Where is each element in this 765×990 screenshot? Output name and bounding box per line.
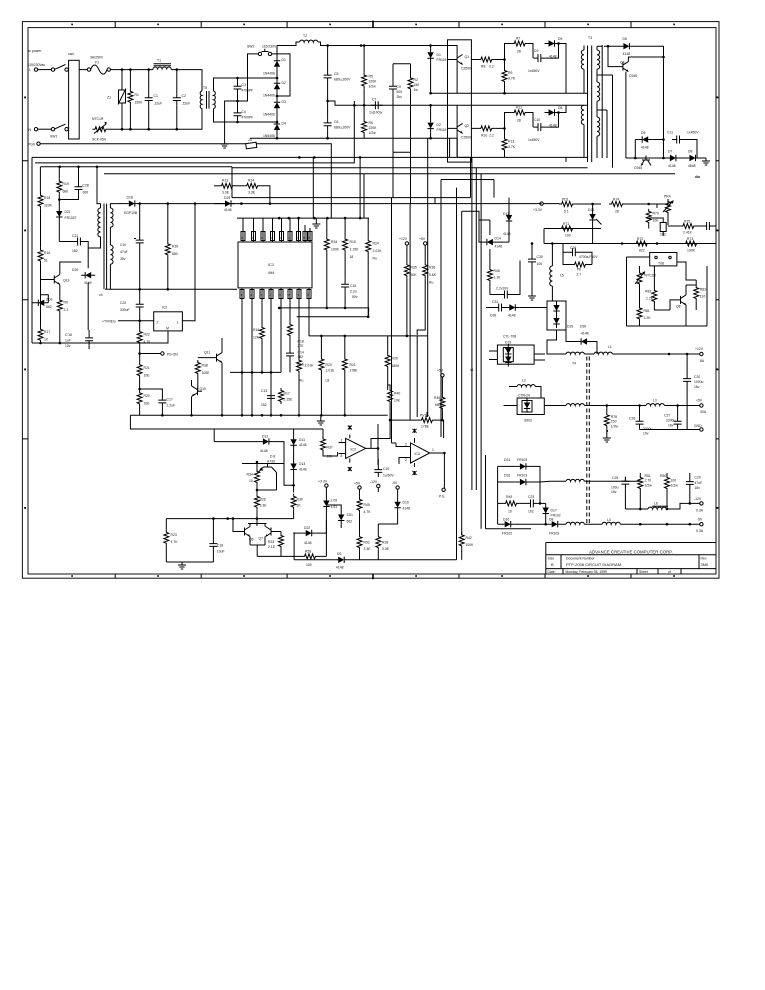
svg-text:4148: 4148 [224,208,232,212]
svg-text:D16: D16 [503,518,509,522]
svg-text:2200u: 2200u [666,419,676,423]
svg-text:.22uF: .22uF [182,102,191,106]
capacitor C18b [209,539,217,551]
svg-text:16v: 16v [695,486,701,490]
resistor R13 [214,185,219,187]
svg-text:16v: 16v [668,424,674,428]
diode D1 FR115 [427,48,433,62]
connector CN8 box [650,253,677,266]
svg-text:x4: x4 [99,293,103,297]
svg-text:x1: x1 [470,368,474,372]
svg-text:102: 102 [528,510,534,514]
svg-text:10: 10 [508,510,512,514]
svg-text:T08: T08 [658,262,664,266]
svg-text:2.09: 2.09 [331,499,338,503]
resistor R14 [235,185,244,187]
svg-text:C31: C31 [492,300,498,304]
resistor R70 [646,209,651,225]
svg-text:2.41K: 2.41K [683,231,693,235]
rail bottom main [130,414,387,416]
svg-text:R5: R5 [369,75,373,79]
svg-text:10uF: 10uF [217,550,225,554]
diode D6 [619,43,633,49]
svg-text:R20: R20 [326,363,332,367]
resistor R11 [505,113,512,129]
diode D13c [290,460,296,474]
svg-text:IC2: IC2 [162,306,167,310]
svg-text:680: 680 [172,252,178,256]
svg-text:SW1: SW1 [50,135,57,139]
svg-text:28: 28 [615,210,619,214]
wire PG0 long [40,143,246,145]
diode D12b [259,438,273,444]
diode D20 [81,272,95,278]
capacitor C17 [140,389,163,396]
resistor R51 [638,475,643,491]
svg-text:2.2x10V: 2.2x10V [496,287,509,291]
svg-text:150: 150 [611,420,617,424]
svg-text:Q1: Q1 [465,55,470,59]
capacitor C25 [621,477,629,489]
svg-text:35v: 35v [120,257,126,261]
resistor R59 [302,554,318,559]
svg-text:2: 2 [405,458,407,462]
wire [79,69,87,71]
svg-text:300: 300 [83,191,89,195]
svg-text:1x450V: 1x450V [528,69,540,73]
svg-text:3.7K: 3.7K [508,77,516,81]
border column tick x459 [458,22,460,579]
svg-text:P.G.: P.G. [439,495,445,499]
svg-text:R17: R17 [44,330,50,334]
resistor R17 [38,327,43,343]
svg-text:R21: R21 [350,363,356,367]
svg-text:R33: R33 [268,540,274,544]
svg-text:1.2K: 1.2K [646,297,654,301]
wire T3 sec top [597,45,602,158]
svg-text:-5V: -5V [697,518,703,522]
wire from T5 to caps [214,78,238,122]
transformer T6 core [104,204,107,290]
svg-text:R23: R23 [171,533,177,537]
svg-text:5.1: 5.1 [564,210,569,214]
svg-text:C11: C11 [667,131,673,135]
svg-text:1x450V: 1x450V [528,138,540,142]
svg-text:C945: C945 [634,166,642,170]
svg-text:.22uF: .22uF [154,102,163,106]
svg-text:R24: R24 [373,242,379,246]
svg-text:R9: R9 [64,301,68,305]
transformer T4 core [587,357,590,526]
svg-text:1N4406: 1N4406 [263,113,275,117]
svg-text:1: 1 [177,321,179,325]
svg-text:10E: 10E [144,374,151,378]
terminal PS-ON [140,353,161,355]
svg-text:C22: C22 [120,301,126,305]
svg-text:4.7K: 4.7K [171,540,179,544]
resistor R30c [291,494,296,510]
svg-text:PG0: PG0 [28,143,35,147]
svg-text:D29: D29 [224,196,230,200]
svg-text:100K: 100K [331,248,340,252]
svg-text:1/2w: 1/2w [369,131,377,135]
resistor R18 [38,193,43,209]
svg-text:100: 100 [537,262,543,266]
vertical bus mid [392,138,436,443]
svg-text:100K: 100K [466,543,475,547]
resistor R39 [165,241,170,257]
transformer T4 winding2 [566,404,584,406]
svg-text:D6: D6 [623,37,627,41]
svg-text:D1: D1 [437,53,441,57]
svg-text:R49: R49 [506,495,512,499]
svg-text:10v: 10v [643,432,649,436]
svg-text:4148: 4148 [503,232,511,236]
resistor R18b on pin6 [288,322,293,338]
svg-text:D17: D17 [551,509,557,513]
svg-text:182: 182 [298,355,304,359]
svg-text:100: 100 [306,563,312,567]
box around Q1 Q2 [448,40,472,162]
svg-text:R83: R83 [700,288,706,292]
svg-text:D18: D18 [127,196,133,200]
zener ZD3 [34,300,48,306]
svg-text:FR103: FR103 [549,532,559,536]
transformer T4 winding4 [566,522,584,524]
svg-text:28: 28 [517,119,521,123]
capacitor C6 [324,118,332,130]
capacitor C2 [173,93,181,105]
diode D8b [686,155,700,161]
svg-text:100: 100 [565,234,571,238]
svg-text:D3: D3 [282,100,286,104]
diode D4 bridge [274,120,280,134]
capacitor C23 [526,499,538,507]
svg-text:4148: 4148 [260,449,268,453]
wire D13 link [592,229,594,244]
resistor R28 [376,534,381,550]
IC1 box [238,242,312,288]
svg-text:C2500: C2500 [461,67,471,71]
svg-text:-12V: -12V [370,480,378,484]
transistor Q7 [266,527,276,537]
svg-text:150: 150 [414,83,420,87]
IC1 bottom pin boxes [240,290,311,299]
svg-text:C29: C29 [695,476,701,480]
svg-text:PS-ON: PS-ON [167,353,178,357]
capacitor box 103 [660,223,666,232]
svg-text:R50: R50 [660,474,666,478]
svg-text:L6: L6 [654,502,658,506]
svg-text:-5V: -5V [392,481,398,485]
svg-text:R34: R34 [331,240,337,244]
svg-text:3.7K: 3.7K [508,145,516,149]
svg-text:D21: D21 [65,210,71,214]
resistor R29 [387,336,389,353]
resistor R13 [502,137,507,153]
border column tick x545 [544,22,546,579]
diode D9 [545,40,559,46]
svg-text:R78: R78 [611,415,617,419]
svg-text:R15: R15 [350,240,356,244]
transformer T4 winding3 [566,479,584,481]
svg-text:1N4406: 1N4406 [263,94,275,98]
svg-text:3.3E: 3.3E [260,504,268,508]
diode D11b [508,198,510,211]
svg-text:R82: R82 [645,290,651,294]
resistor R72 [634,241,650,246]
svg-text:FR1007: FR1007 [65,216,77,220]
op-amp IC3a [346,438,366,458]
IC1 bottom pins [242,288,309,415]
resistor R20c [137,390,142,406]
svg-text:EGP10B: EGP10B [124,211,138,215]
transformer T6 left winding [98,208,101,237]
capacitor C22 [136,300,144,312]
diode D21 [56,207,62,221]
resistor Rb27 [572,262,588,267]
wire bottom DC rail [250,137,458,139]
svg-text:L: L [29,68,31,72]
resistor R23 [164,530,169,546]
resistor R16b on pin3 [260,325,265,341]
svg-text:C27: C27 [664,414,670,418]
svg-text:R22: R22 [144,333,150,337]
resistor R25 [255,494,260,510]
diode D17c [543,504,549,518]
resistor R82 [652,288,657,304]
svg-text:110: 110 [700,295,706,299]
resistor R71 [559,226,575,231]
capacitor C14 on pin6 [286,349,294,361]
svg-text:D39: D39 [490,314,496,318]
svg-text:1.2K: 1.2K [644,316,652,320]
svg-text:330uF: 330uF [120,308,130,312]
svg-text:R18: R18 [298,340,304,344]
resistor R15b on pin7 [297,358,302,374]
svg-text:2: 2 [157,321,159,325]
resistor R7 [505,44,512,60]
svg-text:1000u: 1000u [694,380,704,384]
svg-text:R11: R11 [516,106,522,110]
diode D32 [516,479,530,485]
svg-text:Q13: Q13 [63,279,70,283]
svg-text:R1: R1 [135,93,139,97]
svg-text:C23: C23 [528,495,534,499]
svg-text:R16: R16 [44,251,50,255]
svg-text:220K: 220K [369,80,378,84]
svg-text:cad.: cad. [68,52,74,56]
border column tick x631 [630,22,632,579]
svg-text:R29: R29 [392,357,398,361]
bridge AC taps [238,78,278,122]
svg-text:1/2w: 1/2w [671,484,679,488]
svg-text:178E: 178E [350,369,359,373]
svg-text:+12V: +12V [399,237,408,241]
svg-text:2.2u: 2.2u [350,290,357,294]
svg-text:R28: R28 [382,541,388,545]
svg-text:115/230Vac: 115/230Vac [28,63,46,67]
svg-text:D9: D9 [337,552,341,556]
resistor R46c [487,267,492,283]
svg-text:1K: 1K [297,504,302,508]
capacitor C4 [234,108,242,120]
svg-text:2.1E: 2.1E [268,545,276,549]
svg-text:D12: D12 [262,435,268,439]
svg-text:C19: C19 [383,467,389,471]
svg-text:C2: C2 [182,94,186,98]
diode D8 [545,109,559,115]
svg-text:10: 10 [249,479,253,483]
svg-text:A733: A733 [267,460,275,464]
resistor R74 [609,202,625,207]
resistor R78 [604,412,609,428]
svg-text:IC1: IC1 [268,262,275,267]
title block outline [546,543,716,575]
ground [225,101,238,141]
resistor R50 [665,475,670,491]
svg-text:ADVANCE CREATIVE COMPUTER CORP: ADVANCE CREATIVE COMPUTER CORP. [589,549,673,554]
svg-text:ZD1: ZD1 [347,513,354,517]
transformer T3 left winding [581,46,584,94]
svg-text:L8: L8 [326,379,330,383]
svg-text:PV1: PV1 [420,414,427,418]
svg-text:C6: C6 [334,120,338,124]
capacitor C1 [145,93,153,105]
svg-text:SCK-054: SCK-054 [92,138,106,142]
svg-text:R36: R36 [429,266,435,270]
svg-text:1u/50V: 1u/50V [383,474,394,478]
border frame outer [22,22,719,579]
svg-text:18: 18 [350,255,354,259]
svg-text:D20: D20 [72,268,78,272]
svg-text:2.01E: 2.01E [326,369,336,373]
resistor R34 [324,237,329,253]
rail 243 [544,243,716,245]
svg-text:100: 100 [671,479,677,483]
svg-text:R71: R71 [563,222,569,226]
svg-text:FR103: FR103 [517,474,527,478]
svg-text:4148: 4148 [336,566,344,570]
svg-text:ZD3: ZD3 [46,298,53,302]
rail mid1 [279,307,327,309]
diode D2 FR115 [427,119,433,133]
terminal -12V out [700,502,703,505]
diode D18 [125,200,139,206]
rail upper mid [232,197,471,199]
svg-text:Monday, February 08, 1999: Monday, February 08, 1999 [566,570,608,574]
rail 556 [257,555,302,557]
svg-text:C20: C20 [694,375,700,379]
wire mid rails [232,93,588,168]
svg-text:D22: D22 [304,526,310,530]
resistor R16 [38,248,43,264]
resistor R83 [694,285,699,301]
transistor Q10 [192,386,202,396]
wire IC2 gnd [93,331,168,343]
capacitor C9b [528,44,533,59]
svg-text:IC3: IC3 [415,452,420,456]
svg-text:10E: 10E [144,402,151,406]
svg-text:4148: 4148 [495,245,503,249]
resistor R45 [357,497,362,513]
svg-text:D29: D29 [567,325,573,329]
svg-text:1n(100)v: 1n(100)v [369,111,383,115]
transistor Q1 [453,55,463,65]
wire IC2 out [182,204,195,321]
svg-text:Q8: Q8 [676,305,681,309]
resistor R9 [57,298,62,314]
svg-text:1x450V: 1x450V [687,131,699,135]
svg-text:C15: C15 [350,284,356,288]
svg-text:R7: R7 [516,37,520,41]
svg-text:Q11: Q11 [204,351,210,355]
rail 528 [486,455,532,529]
svg-text:L3: L3 [607,518,611,522]
svg-text:R37: R37 [327,446,333,450]
svg-text:SW2: SW2 [247,45,254,49]
svg-text:R45: R45 [364,503,370,507]
svg-text:662: 662 [347,520,353,524]
zener ZD5 [323,497,329,511]
svg-text:+5V: +5V [437,369,444,373]
transistor Q5 [641,156,651,166]
svg-text:R38: R38 [202,364,208,368]
border row ticks left/right [22,161,719,439]
svg-text:1N5406: 1N5406 [263,134,275,138]
ground [702,158,710,165]
svg-text:Size: Size [548,556,555,560]
diode D29 aux [221,200,235,206]
svg-text:50v: 50v [352,295,358,299]
rail mid2 [297,316,369,318]
svg-text:FR115: FR115 [437,128,447,132]
svg-text:4148: 4148 [623,52,631,56]
terminal +12V out [700,352,703,355]
svg-text:T3: T3 [588,36,592,40]
svg-text:10v: 10v [65,344,71,348]
svg-text:C5: C5 [334,72,338,76]
terminal +3.3V [540,202,543,205]
resistor R20b [320,336,322,357]
capacitor C27 [674,417,682,429]
svg-text:R18: R18 [44,196,50,200]
svg-text:2.01K: 2.01K [373,249,383,253]
svg-text:1N4406: 1N4406 [263,72,275,76]
svg-text:3M0: 3M0 [701,562,710,567]
svg-text:D13: D13 [299,462,305,466]
resistor R52 [357,534,362,550]
NTC2R thermistor [637,271,642,287]
resistor R1 [128,89,133,105]
svg-text:T5: T5 [203,86,207,90]
wire top DC rail [277,42,458,46]
svg-text:R9: R9 [508,71,512,75]
svg-text:680u,200V: 680u,200V [334,78,351,82]
capacitor C10 [528,113,533,128]
ground c30 [528,293,536,300]
svg-text:4148: 4148 [299,468,307,472]
svg-text:R42: R42 [466,536,472,540]
terminal +5V out [700,404,703,407]
diode D2 bridge [274,79,280,93]
wire SW2 left to C3C4 mid [238,54,259,101]
svg-text:R26: R26 [260,498,266,502]
resistor R38 [195,360,200,376]
svg-text:3.3E: 3.3E [222,191,230,195]
svg-text:2.7: 2.7 [577,273,582,277]
svg-text:C9: C9 [534,49,538,53]
